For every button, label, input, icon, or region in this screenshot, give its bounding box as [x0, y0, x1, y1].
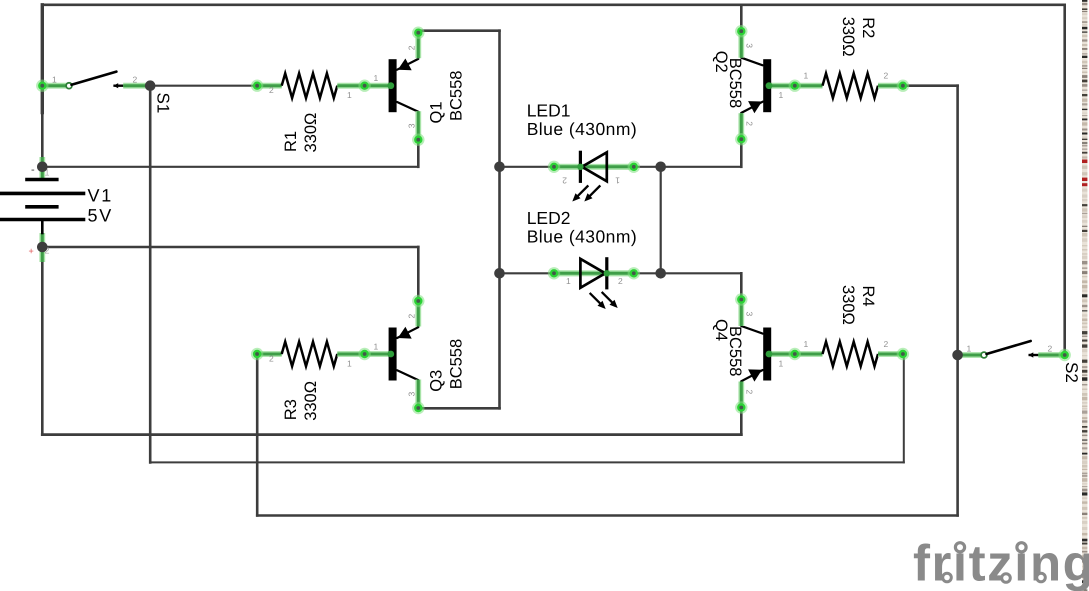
junction LED2 row at cross vertical — [655, 268, 666, 279]
wire S1 junction to R1 — [150, 85, 254, 87]
transistor Q4 pin 2 lead — [738, 382, 744, 410]
svg-text:LED2: LED2 — [527, 208, 571, 228]
wire Q3 emitter drop — [417, 408, 420, 410]
svg-text:BC558: BC558 — [448, 71, 466, 121]
transistor Q2 base bar — [763, 59, 771, 112]
transistor Q4 emitter arrow — [748, 369, 762, 381]
resistor R4 pin 2 end dot — [897, 348, 909, 360]
transistor Q1 collector diagonal (pin 3, bottom) — [397, 102, 418, 112]
svg-text:1: 1 — [779, 359, 784, 369]
svg-text:S2: S2 — [1062, 362, 1081, 383]
LED LED2 emission arrow 2 — [603, 293, 616, 306]
resistor R1 pin 2 end dot — [251, 80, 263, 92]
svg-text:Blue (430nm): Blue (430nm) — [527, 227, 637, 247]
resistor R1 pin 1 wire dot — [358, 80, 370, 92]
wire bottom bus 2 (S1 to R4) — [150, 461, 904, 463]
LED LED2 bar contact dot — [604, 270, 610, 276]
wire right-side vertical to S2 pin 2 — [1063, 5, 1066, 355]
svg-text:2: 2 — [884, 339, 889, 349]
svg-text:R4: R4 — [859, 286, 877, 307]
svg-text:2: 2 — [884, 71, 889, 81]
junction S2 pin 1 node — [952, 350, 963, 361]
svg-text:1: 1 — [347, 359, 352, 369]
svg-text:330Ω: 330Ω — [839, 17, 857, 57]
svg-text:1: 1 — [804, 339, 809, 349]
LED LED1 anode lead (right, pin 1) — [607, 164, 634, 170]
wire bottom bus 1 (battery plus to Q4 emitter) — [42, 433, 741, 436]
svg-text:3: 3 — [407, 123, 417, 128]
resistor R1 left lead (pin 2) — [257, 83, 282, 89]
svg-text:R1: R1 — [282, 131, 300, 152]
LED LED1 cathode bar — [579, 152, 582, 181]
svg-text:2: 2 — [269, 85, 274, 95]
wire S2 vertical riser from bus 3 — [956, 355, 959, 516]
svg-text:LED1: LED1 — [527, 101, 571, 121]
wire center column vertical (Q1 collector to Q3 emitter) — [498, 31, 501, 409]
svg-text:1: 1 — [347, 90, 352, 100]
resistor R2 left lead (pin 1) joined to transistor base — [769, 83, 822, 89]
svg-text:2: 2 — [269, 354, 274, 364]
svg-text:Q1: Q1 — [428, 101, 446, 123]
wire LED2 row right segment — [632, 272, 661, 274]
switch S2 pivot circle — [981, 352, 987, 358]
wire Q4 collector drop from LED2 row — [740, 273, 743, 298]
svg-text:BC558: BC558 — [726, 326, 744, 376]
svg-text:330Ω: 330Ω — [302, 381, 320, 421]
resistor R3 right lead (pin 1) joined to transistor base — [337, 351, 390, 357]
resistor R2 pin 2 end dot — [897, 80, 909, 92]
transistor Q1 pin 2 lead — [415, 31, 421, 59]
LED LED1 through lead — [553, 164, 634, 170]
battery V1 long plate 1 — [1, 192, 84, 196]
svg-text:2: 2 — [562, 175, 567, 185]
junction center column at LED2 row — [494, 268, 505, 279]
transistor Q1 base contact dot — [387, 82, 394, 89]
svg-text:BC558: BC558 — [448, 339, 466, 389]
LED LED1 cathode lead (left, pin 2) — [553, 164, 581, 170]
wire LED1 row left segment — [500, 166, 555, 168]
LED LED2 triangle — [580, 259, 605, 288]
svg-text:1: 1 — [374, 342, 379, 352]
transistor Q2 pin 3 end dot — [735, 25, 747, 37]
transistor Q4 base bar — [763, 328, 771, 381]
svg-text:Q3: Q3 — [428, 370, 446, 392]
svg-text:Blue (430nm): Blue (430nm) — [527, 119, 637, 139]
switch S1 pin 2 lead — [123, 83, 146, 89]
wire R2 to S2 junction vertical — [956, 86, 959, 355]
transistor Q3 base bar — [389, 328, 397, 381]
wire cross-couple vertical between LED rows — [660, 167, 662, 273]
wire Q4 emitter riser from bus 1 — [740, 409, 743, 435]
transistor Q2 emitter diagonal (pin 2, bottom) — [741, 102, 762, 113]
transistor Q1 pin 3 lead — [415, 111, 421, 142]
switch S1 lever — [72, 72, 117, 85]
resistor R4 left lead (pin 1) joined to transistor base — [769, 351, 822, 357]
transistor Q2 base contact dot — [766, 82, 773, 89]
switch S2 pin 2 glow — [1059, 349, 1071, 361]
resistor R2 pin 1 wire dot — [789, 80, 801, 92]
svg-text:2: 2 — [1048, 344, 1053, 354]
transistor Q3 pin 3 lead — [415, 380, 421, 411]
switch S1 pin 2 contact — [115, 84, 124, 86]
transistor Q1 emitter diagonal (pin 2, top) — [397, 59, 418, 70]
wire LED2 node to Q4 collector corner — [661, 272, 742, 274]
wire Q1 collector up — [417, 29, 420, 32]
transistor Q1 pin 2 end dot — [412, 27, 424, 39]
wire battery V1 plus down the left side — [41, 247, 44, 435]
LED LED2 anode lead (left, pin 1) — [553, 270, 581, 276]
svg-text:2: 2 — [745, 390, 755, 395]
fritzing watermark logo — [913, 535, 1089, 591]
transistor Q4 collector diagonal (pin 3, top) — [741, 326, 762, 334]
resistor R4 body zigzag — [823, 342, 879, 367]
wire Q1 collector top run to center column — [418, 29, 499, 32]
junction node top of battery (minus) at left rail — [37, 162, 48, 173]
transistor Q1 emitter arrow — [398, 59, 412, 71]
switch S1 pin 1 lead — [42, 83, 66, 89]
transistor Q4 emitter diagonal (pin 2, bottom) — [741, 370, 762, 381]
transistor Q2 pin 2 lead — [738, 113, 744, 141]
wire Q3 collector riser — [417, 247, 420, 298]
transistor Q2 collector diagonal (pin 3, top) — [741, 58, 762, 66]
wire left vertical overlapping thicker segment — [41, 5, 44, 113]
LED LED1 emission arrow 1 — [575, 186, 588, 199]
LED LED1 bar contact dot — [577, 164, 583, 170]
svg-text:1: 1 — [804, 71, 809, 81]
svg-text:+: + — [29, 246, 34, 256]
transistor Q3 collector diagonal (pin 3, bottom) — [397, 370, 418, 380]
switch S1 pin 1 glow — [36, 80, 48, 92]
transistor Q4 pin 3 end dot — [735, 293, 747, 305]
svg-text:1: 1 — [779, 90, 784, 100]
transistor Q3 base contact dot — [387, 351, 394, 358]
transistor Q4 pin 2 end dot — [735, 401, 747, 413]
svg-text:1: 1 — [566, 276, 571, 286]
svg-text:330Ω: 330Ω — [839, 285, 857, 325]
wire LED2 row left segment — [500, 272, 555, 274]
svg-text:-: - — [31, 164, 35, 176]
svg-text:3: 3 — [745, 43, 755, 48]
transistor Q3 pin 2 end dot — [412, 295, 424, 307]
wire Q3 emitter run to center column — [418, 407, 499, 410]
junction node bottom of battery (plus) at left rail — [37, 242, 48, 253]
wire R3 vertical drop — [256, 354, 259, 516]
transistor Q2 emitter arrow — [748, 101, 762, 113]
transistor Q3 pin 2 lead — [415, 299, 421, 327]
svg-text:3: 3 — [745, 312, 755, 317]
resistor R3 pin 2 end dot — [251, 348, 263, 360]
svg-text:fritzing: fritzing — [913, 535, 1089, 591]
svg-text:2: 2 — [618, 276, 623, 286]
svg-text:BC558: BC558 — [726, 58, 744, 108]
wire R4 riser from bus 2 — [903, 354, 905, 462]
wire Q2 emitter drop to LED1 row — [740, 141, 743, 167]
transistor Q2 pin 2 end dot — [735, 133, 747, 145]
wire LED1 row right segment — [632, 166, 661, 168]
transistor Q4 pin 3 lead — [738, 298, 744, 327]
battery V1 short plate 2 — [27, 205, 57, 209]
LED LED2 cathode lead (right, pin 2) — [607, 270, 634, 276]
LED LED2 emission arrow 1 — [591, 294, 604, 307]
battery V1 short plate 1 — [27, 178, 57, 182]
switch S2 lever — [987, 341, 1031, 354]
transistor Q4 base contact dot — [766, 351, 773, 358]
transistor Q3 emitter arrow — [398, 327, 412, 339]
wire LED1 node to Q2 emitter corner — [661, 166, 742, 168]
wire battery minus bus to Q1 emitter — [42, 166, 418, 168]
svg-text:1: 1 — [615, 175, 620, 185]
LED LED1 triangle — [582, 152, 607, 181]
wire top bus from node A to S2 branch — [42, 4, 1064, 7]
LED LED2 end dot left — [548, 267, 560, 279]
switch S2 pin 2 lead — [1038, 352, 1064, 358]
transistor Q1 base bar — [389, 59, 397, 112]
junction S1 pin 2 node — [145, 80, 156, 91]
LED LED1 end dot left — [548, 161, 560, 173]
resistor R4 pin 1 wire dot — [789, 348, 801, 360]
battery V1 internal stub — [41, 220, 44, 234]
LED LED2 through lead — [553, 270, 634, 276]
resistor R1 body zigzag — [282, 73, 338, 98]
LED LED1 emission arrow 2 — [587, 186, 600, 199]
transistor Q3 pin 3 end dot — [412, 402, 424, 414]
junction center column at LED1 row — [494, 162, 505, 173]
wire Q2 collector from top bus — [740, 5, 743, 31]
transistor Q3 emitter diagonal (pin 2, top) — [397, 327, 418, 338]
wire Q1 emitter drop to battery minus bus — [417, 140, 420, 167]
svg-text:2: 2 — [407, 314, 417, 319]
switch S2 pin 1 lead — [958, 352, 982, 358]
transistor Q1 pin 3 end dot — [412, 134, 424, 146]
battery V1 pin 2 lead (green) — [39, 233, 45, 262]
switch S2 pin 2 contact — [1030, 354, 1039, 356]
svg-text:R2: R2 — [859, 17, 877, 38]
svg-text:5V: 5V — [88, 206, 114, 226]
junction LED1 row at cross vertical — [655, 162, 666, 173]
svg-text:2: 2 — [407, 45, 417, 50]
battery V1 pin 1 lead (green) — [39, 157, 45, 180]
svg-text:V1: V1 — [88, 186, 114, 206]
decor right-edge clipped raster strip — [1082, 0, 1087, 591]
resistor R3 pin 1 wire dot — [358, 348, 370, 360]
transistor Q2 pin 3 lead — [738, 29, 744, 58]
resistor R2 right lead (pin 2) — [878, 83, 903, 89]
svg-text:1: 1 — [967, 344, 972, 354]
wire bottom bus 3 (R3 to S2) — [257, 514, 957, 517]
svg-text:330Ω: 330Ω — [302, 113, 320, 153]
resistor R4 right lead (pin 2) — [878, 351, 903, 357]
svg-text:3: 3 — [407, 392, 417, 397]
LED LED1 end dot right — [628, 161, 640, 173]
wire battery plus bus to Q3 collector — [42, 246, 418, 249]
wire R2 right lead to corner — [903, 84, 958, 87]
resistor R2 body zigzag — [823, 73, 879, 98]
svg-text:R3: R3 — [282, 399, 300, 420]
resistor R3 left lead (pin 2) — [257, 351, 282, 357]
svg-text:1: 1 — [374, 73, 379, 83]
resistor R3 body zigzag — [282, 342, 338, 367]
switch S1 pivot circle — [66, 83, 72, 89]
svg-text:1: 1 — [52, 75, 57, 85]
resistor R1 right lead (pin 1) joined to transistor base — [337, 83, 390, 89]
svg-text:2: 2 — [745, 121, 755, 126]
battery V1 long plate 2 — [1, 218, 84, 222]
LED LED2 cathode bar — [605, 259, 608, 288]
wire S1 vertical drop — [149, 86, 152, 463]
LED LED2 end dot right — [628, 267, 640, 279]
wire left vertical from top bus to battery V1 minus — [41, 5, 44, 167]
svg-text:2: 2 — [133, 75, 138, 85]
svg-text:S1: S1 — [154, 93, 173, 114]
